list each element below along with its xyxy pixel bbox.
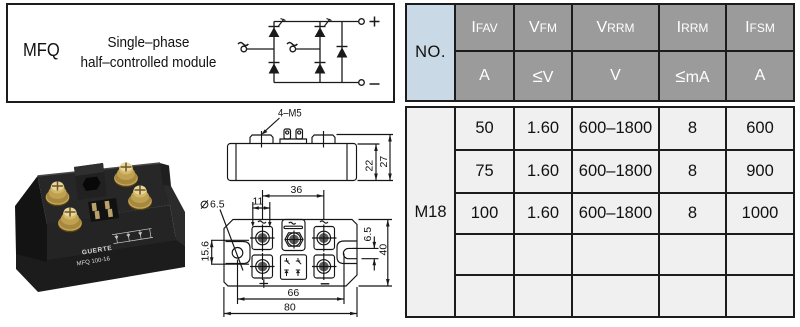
terminal 2 xyxy=(58,207,82,232)
center boss xyxy=(282,220,305,251)
side view body xyxy=(228,144,357,181)
right end block xyxy=(160,163,171,189)
thyristor Q2 xyxy=(315,19,332,38)
center screw crosshair xyxy=(285,231,304,249)
center circuit block xyxy=(281,255,307,279)
diode D1 xyxy=(269,63,280,74)
4-M5 leader line xyxy=(263,118,280,133)
terminal 3 xyxy=(114,162,138,187)
dim 36 xyxy=(263,190,324,219)
base top bevel xyxy=(16,236,176,260)
svg-text:15.6: 15.6 xyxy=(199,241,211,262)
bottom rail wire xyxy=(274,82,359,84)
dim 15.6 xyxy=(210,240,249,264)
terminal 4 xyxy=(128,185,152,210)
svg-text:40: 40 xyxy=(377,244,389,256)
center screw hex xyxy=(285,233,303,246)
thyristor Q1 xyxy=(269,19,286,38)
side view right cap divider xyxy=(346,144,348,181)
circuit schematic svg xyxy=(225,3,393,99)
pins xyxy=(92,201,113,219)
leg 1 wire xyxy=(273,22,275,83)
leg 2 wire xyxy=(319,22,321,83)
AC input 2 wire xyxy=(296,48,321,50)
tilde mark TL xyxy=(258,221,266,223)
terminal BR xyxy=(312,253,337,280)
top-left titled box xyxy=(6,3,395,103)
top back edge highlight xyxy=(38,163,161,176)
body top face xyxy=(38,163,171,224)
title text xyxy=(31,33,266,72)
front view body outline xyxy=(224,220,357,287)
center block top xyxy=(74,163,104,176)
plus terminal xyxy=(359,19,365,25)
AC terminal 1 xyxy=(241,46,247,52)
svg-text:6.5: 6.5 xyxy=(362,227,374,242)
bump 2 axis xyxy=(323,131,325,148)
left mounting hole xyxy=(232,248,243,259)
svg-text:66: 66 xyxy=(288,287,300,299)
pin 2 xyxy=(296,129,303,139)
lower-left technical drawing svg xyxy=(0,100,410,327)
body front face xyxy=(45,205,176,260)
side view center platform xyxy=(280,139,307,144)
terminal TR xyxy=(312,225,337,252)
pin recess xyxy=(88,198,119,222)
diode D2 xyxy=(315,63,326,74)
right mounting boss xyxy=(337,241,357,264)
phi 6.5 leader xyxy=(220,210,243,271)
dim 66 xyxy=(238,260,345,305)
slot center line down xyxy=(343,254,345,305)
terminal TL xyxy=(250,225,275,252)
AC terminal 2 xyxy=(290,46,296,52)
AC input 1 wire xyxy=(247,48,275,50)
minus mark xyxy=(321,283,330,285)
side view left cap divider xyxy=(235,144,237,181)
dim 80 xyxy=(224,287,357,317)
side view bump 2 xyxy=(312,135,335,144)
pin 1 xyxy=(284,129,291,139)
side view bump 1 xyxy=(250,135,273,144)
right slot xyxy=(343,248,357,258)
right side face xyxy=(163,185,185,246)
svg-text:22: 22 xyxy=(364,160,376,172)
base flange xyxy=(16,236,185,292)
boss slot bar xyxy=(284,226,303,228)
leg 3 wire xyxy=(341,22,343,83)
tiny diode symbols bottom row xyxy=(284,270,300,276)
phi symbol xyxy=(201,200,208,208)
center block xyxy=(74,163,107,200)
center screw circles xyxy=(287,233,300,246)
spec body table xyxy=(405,106,795,318)
MFQ label xyxy=(23,40,60,61)
bump 1 axis xyxy=(261,131,263,148)
svg-text:80: 80 xyxy=(284,302,296,314)
dim 11 xyxy=(253,202,270,226)
tilde mark TR xyxy=(320,221,328,223)
dim 27 line xyxy=(388,135,392,181)
dim 22 line xyxy=(374,144,378,181)
hex hole xyxy=(83,177,101,192)
side view dim ext lines xyxy=(337,134,394,136)
boss tilde xyxy=(289,222,296,224)
terminal 1 xyxy=(46,181,70,206)
plus mark xyxy=(260,279,269,288)
minus terminal xyxy=(359,80,365,86)
svg-text:6.5: 6.5 xyxy=(210,199,225,211)
minus sign xyxy=(370,83,380,85)
printed diagram xyxy=(112,228,153,243)
dim 6.5 right slot xyxy=(353,237,379,271)
svg-text:11: 11 xyxy=(253,196,264,208)
svg-text:4–M5: 4–M5 xyxy=(278,108,302,120)
plus sign xyxy=(370,17,380,27)
dim 11 end wedges xyxy=(251,222,255,227)
tilde AC 1 xyxy=(238,43,248,46)
printed text xyxy=(75,245,115,268)
tiny scr symbols top row xyxy=(284,258,301,264)
svg-text:27: 27 xyxy=(378,156,390,168)
freewheel diode D3 xyxy=(337,47,348,58)
top rail wire xyxy=(274,21,359,23)
tilde AC 2 xyxy=(287,43,297,46)
dim 40 xyxy=(359,220,393,287)
spec header table xyxy=(405,3,795,102)
left end block xyxy=(15,176,47,262)
svg-text:36: 36 xyxy=(291,184,303,196)
left mounting boss xyxy=(226,242,251,264)
terminal BL xyxy=(250,253,275,280)
